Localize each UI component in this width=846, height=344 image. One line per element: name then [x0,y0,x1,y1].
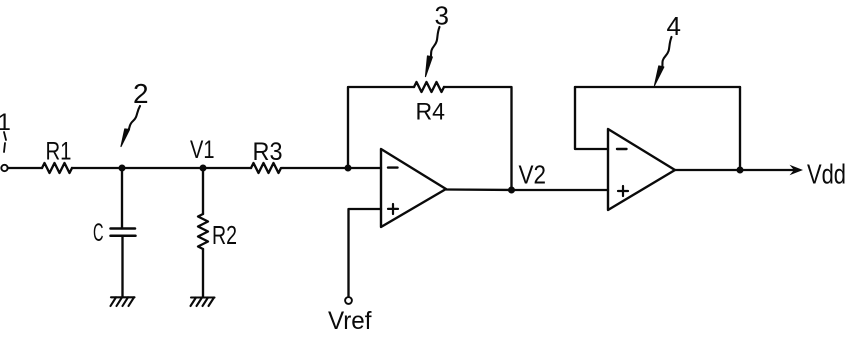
svg-text:4: 4 [667,11,681,41]
resistor R4 [414,82,444,92]
U1 minus input marker [388,166,398,168]
feedback wire: R4 to output node [444,87,512,190]
wire: U1 output to node V2 [446,188,512,191]
wire: node 2 down to capacitor C [121,168,123,229]
wire: V1 to R3 [203,167,251,169]
capacitor C [111,229,136,236]
svg-text:1: 1 [0,109,11,136]
U2 feedback top wire [575,86,740,88]
resistor R2 [198,214,208,249]
wire: terminal to R1 [8,167,42,169]
svg-text:V2: V2 [519,160,547,190]
svg-text:R1: R1 [46,138,72,166]
output node junction dot [737,167,744,174]
resistor R1 [42,163,72,173]
wire: node V2 to U2 plus input [512,189,609,191]
wire: inverting node to U1 minus input [348,167,381,169]
svg-text:C: C [93,219,104,247]
wire: output node to Vdd arrow [740,169,799,171]
svg-text:R4: R4 [416,99,446,126]
leader arrow to R4 [426,27,440,77]
U2 minus input marker [617,148,627,150]
inverting node junction dot [345,165,352,172]
node V1 junction dot [200,165,207,172]
svg-text:V1: V1 [190,136,215,164]
wire: node V1 down to R2 [202,168,204,214]
node 2 junction dot [119,165,126,172]
U2 plus input marker [618,186,628,196]
Vref terminal open circle [345,297,352,304]
wire: U2 output to output node [675,169,740,171]
feedback wire: node up to R4 [348,87,414,168]
resistor R3 [251,163,283,173]
leader arrow to node 2 [121,106,140,147]
U2 feedback right wire down to output [739,87,741,170]
wire: R3 to inverting node [283,167,348,169]
ground under R2 [191,298,215,307]
wire: node 2 to node V1 [122,167,203,169]
wire: R2 to ground [202,249,204,297]
svg-text:R2: R2 [212,220,237,250]
wire: R1 to node 2 [72,167,122,169]
leader line from 1 to input terminal [4,132,6,152]
svg-text:Vdd: Vdd [807,159,846,190]
input terminal open circle [1,165,7,171]
svg-text:Vref: Vref [328,307,372,335]
wire: U1 plus input to Vref [349,209,382,297]
wire: U2 minus input to feedback loop [575,87,608,149]
U1 plus input marker [388,204,398,214]
leader arrow to U2 feedback wire [655,37,672,86]
Vdd arrowhead [790,165,804,175]
svg-text:R3: R3 [253,138,283,166]
ground under C [111,297,135,306]
node V2 junction dot [508,187,515,194]
op-amp U1 [381,149,446,227]
wire: capacitor C to ground [121,236,123,297]
svg-text:2: 2 [133,78,149,109]
op-amp U2 [608,129,675,210]
svg-text:3: 3 [435,1,449,31]
